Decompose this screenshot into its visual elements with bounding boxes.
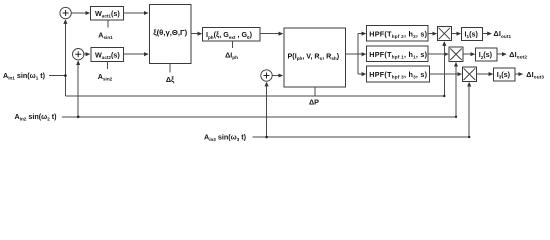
multiplier X2 box	[449, 47, 463, 61]
wire HPF3 to X3	[430, 73, 462, 75]
svg-text:ξ(θ,γ,Θ,Γ): ξ(θ,γ,Θ,Γ)	[153, 28, 187, 37]
svg-text:Ain2 sin(ω2 t): Ain2 sin(ω2 t)	[15, 112, 58, 122]
wire dither2 vertical into S2	[77, 61, 79, 117]
block Xi box	[149, 4, 191, 63]
node rail3 corner	[468, 136, 470, 138]
node rail1 corner	[443, 95, 445, 97]
block Iph box	[203, 28, 260, 42]
block P box	[284, 28, 346, 87]
block Wact2 box	[91, 48, 124, 62]
wire dither3 vertical into S3	[266, 82, 268, 137]
svg-text:Asin1: Asin1	[98, 30, 113, 40]
wire P output to split node	[346, 53, 358, 55]
block HPF1 box	[367, 46, 428, 62]
wire Wact1 to Xi	[123, 12, 148, 14]
wire I1 to output	[483, 33, 492, 35]
svg-text:ΔIout1: ΔIout1	[494, 29, 512, 39]
wire S3 to P	[272, 75, 282, 77]
sum junction S3	[261, 70, 272, 81]
multiplier X3 box	[462, 67, 476, 81]
wire I3 to output	[515, 73, 522, 75]
wire split vertical	[357, 34, 359, 75]
svg-text:Ain1 sin(ω1 t): Ain1 sin(ω1 t)	[3, 71, 46, 81]
label tick dP	[314, 87, 316, 96]
wire Iph to P	[260, 33, 283, 35]
svg-text:ΔP: ΔP	[309, 97, 319, 106]
wire X3 to I3	[477, 73, 493, 75]
svg-text:ΔIout3: ΔIout3	[526, 70, 544, 80]
wire X1 to I1	[451, 33, 460, 35]
wire rail1 carrier	[65, 95, 444, 97]
multiplier X1 box	[437, 27, 451, 41]
block HPF3 box	[367, 66, 430, 82]
wire input3 rail	[253, 136, 470, 138]
block I3 box	[494, 68, 515, 81]
wire I2 to output	[497, 53, 506, 55]
svg-text:Δξ: Δξ	[166, 75, 175, 84]
wire split to HPF2	[358, 33, 366, 35]
label tick dXi	[169, 64, 171, 73]
wire HPF1 to X2	[428, 53, 448, 55]
node junction input2/dither2	[77, 116, 80, 119]
wire split to HPF1	[358, 53, 366, 55]
wire split to HPF3	[358, 73, 366, 75]
svg-text:ΔIout2: ΔIout2	[509, 50, 527, 60]
sum junction S1	[60, 7, 71, 18]
wire carrier2 vertical into X2	[455, 63, 457, 117]
node rail2 corner	[455, 116, 457, 118]
wire S2 to Wact2	[84, 53, 90, 55]
svg-text:ΔIph: ΔIph	[225, 51, 238, 61]
label tick dIph	[232, 41, 234, 48]
wire X2 to I2	[463, 53, 475, 55]
block HPF2 box	[367, 26, 428, 42]
wire carrier3 vertical into X3	[468, 83, 470, 138]
svg-text:Asin2: Asin2	[98, 72, 113, 82]
label tick Asin1	[107, 20, 109, 28]
wire input1 horizontal	[49, 75, 66, 77]
svg-text:Ain3 sin(ω3 t): Ain3 sin(ω3 t)	[204, 132, 247, 142]
wire input2 rail	[62, 116, 456, 118]
wire S1 to Wact1	[71, 12, 89, 14]
wire carrier1 vertical into X1	[443, 42, 445, 96]
label tick Asin2	[107, 62, 109, 69]
block I1 box	[461, 28, 482, 41]
sum junction S2	[73, 49, 84, 60]
block I2 box	[476, 48, 497, 61]
wire HPF2 to X1	[428, 33, 436, 35]
node junction input1/dither1	[64, 74, 67, 77]
wire Wact2 to Xi	[124, 53, 148, 55]
block Wact1 box	[91, 7, 124, 21]
wire dither1 vertical into S1	[64, 20, 66, 96]
wire Xi to Iph	[191, 33, 201, 35]
node junction input3/dither3	[265, 136, 268, 139]
